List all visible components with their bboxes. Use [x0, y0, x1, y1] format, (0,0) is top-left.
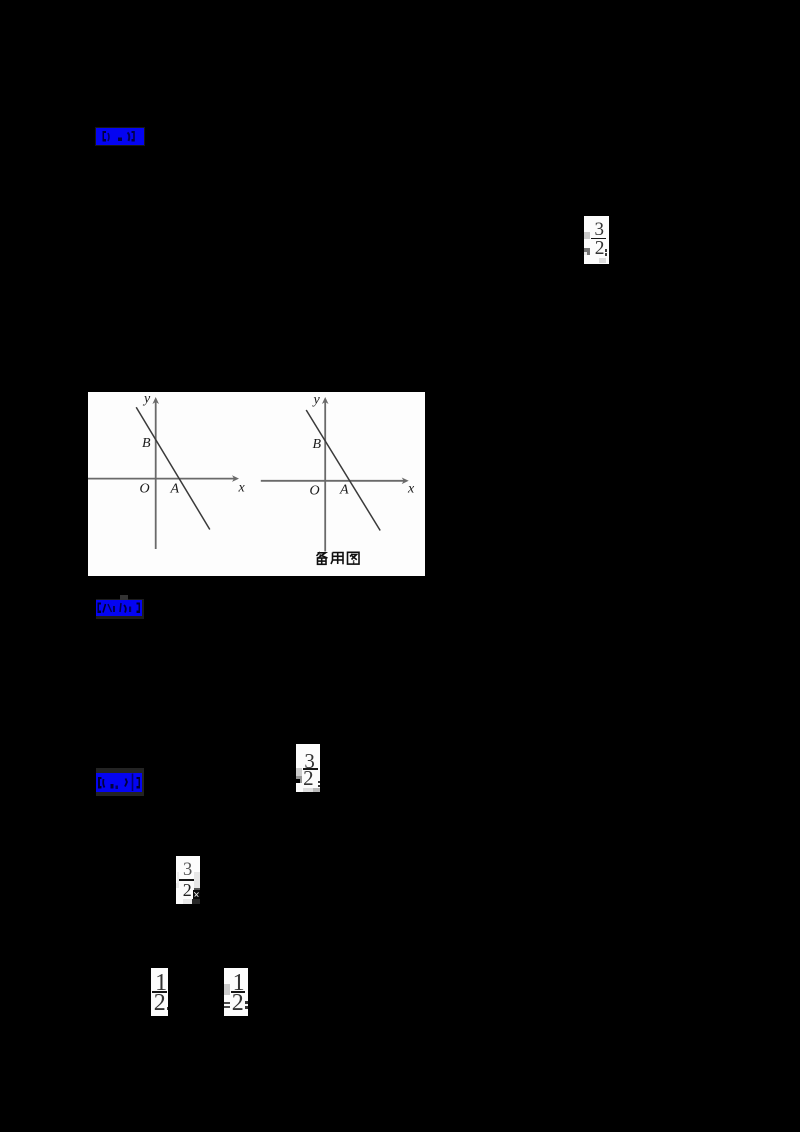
svg-text:A: A	[339, 483, 349, 498]
svg-text:O: O	[309, 484, 319, 499]
svg-text:O: O	[139, 482, 149, 497]
svg-text:B: B	[142, 436, 151, 451]
svg-text:x: x	[407, 482, 415, 497]
svg-text:x: x	[237, 481, 245, 496]
svg-text:B: B	[312, 437, 321, 452]
svg-text:A: A	[169, 482, 179, 497]
svg-text:y: y	[311, 393, 320, 408]
svg-text:y: y	[142, 392, 151, 407]
